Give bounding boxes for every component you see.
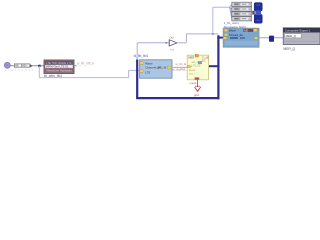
svg-text:Simulation SGN: Simulation SGN xyxy=(224,25,246,29)
svg-text:w_fkt_ME.w: w_fkt_ME.w xyxy=(77,62,95,66)
label E1 below xyxy=(283,47,295,51)
svg-text:Waveform Hardware: Waveform Hardware xyxy=(47,68,73,72)
svg-text:MER_Q: MER_Q xyxy=(286,34,297,38)
wire D1 output to export xyxy=(259,37,283,39)
label D1 two lines xyxy=(224,21,246,29)
block E1 Composite Export xyxy=(283,28,320,45)
wire vertical x213 up xyxy=(212,7,214,34)
svg-text:meas: meas xyxy=(189,81,196,85)
svg-text:w_fkdFM_E: w_fkdFM_E xyxy=(173,67,189,71)
block U2 measurement (yellow) xyxy=(187,54,209,79)
wire bottom horizontal run to riser xyxy=(39,77,128,79)
svg-text:MER_Q: MER_Q xyxy=(283,47,295,51)
svg-text:Out: Out xyxy=(169,35,174,39)
source W1 waveform chain icon xyxy=(14,64,29,67)
thick loop wire right vertical xyxy=(217,35,219,99)
wire top horizontal y34 xyxy=(186,33,218,35)
wire W1 source to block A1 xyxy=(10,65,44,67)
block D1 simulation source DAC (blue) xyxy=(223,28,259,47)
wire left vertical thin upper xyxy=(136,43,138,61)
label U1 xyxy=(134,54,149,58)
arrowhead into A1 xyxy=(44,65,46,67)
label faint under source xyxy=(5,68,34,72)
svg-text:tb_wfm_fkt1: tb_wfm_fkt1 xyxy=(44,74,62,78)
svg-text:LTE: LTE xyxy=(145,71,150,75)
wire top horizontal y7 to fan xyxy=(213,6,230,8)
svg-text:E2: E2 xyxy=(202,59,206,63)
thick loop wire bottom xyxy=(136,97,219,99)
svg-text:t4_fkt_fkt1: t4_fkt_fkt1 xyxy=(134,54,149,58)
label A1 xyxy=(44,74,62,78)
sink stack S1 (4 stacked blocks) xyxy=(232,2,252,21)
svg-text:MER: MER xyxy=(188,55,194,59)
node J1 junction dot xyxy=(38,65,40,67)
node T junction at x213 xyxy=(212,33,214,35)
wire stub A1 output xyxy=(74,65,77,67)
svg-text:0 1 0 1 0 1 0 1 0: 0 1 0 1 0 1 0 1 0 xyxy=(5,68,34,72)
node marker navy square on wire xyxy=(269,36,274,42)
svg-text:w_fkt_E: w_fkt_E xyxy=(176,62,187,66)
wire drop from junction J1 xyxy=(38,66,40,78)
port P1 input circle xyxy=(4,62,10,68)
svg-text:Thread_Ex: Thread_Ex xyxy=(229,33,244,37)
wire into U1 lower input xyxy=(129,69,140,71)
ground symbol GND (red) xyxy=(189,80,200,97)
block U1 subnetwork (blue) xyxy=(140,60,172,78)
thick wire into DAC input xyxy=(217,37,223,39)
svg-text:ME: ME xyxy=(244,29,248,33)
net label w_fkt_ME xyxy=(77,62,95,66)
svg-text:Wave: Wave xyxy=(229,29,237,33)
svg-text:Composite Export 1: Composite Export 1 xyxy=(285,29,311,33)
svg-text:out_t: out_t xyxy=(189,71,195,75)
gate G1 buffer triangle xyxy=(166,35,177,51)
thick loop wire left vertical xyxy=(136,60,138,99)
svg-text:gnd: gnd xyxy=(194,93,199,97)
source output arrowhead xyxy=(30,64,33,67)
svg-text:Inv: Inv xyxy=(170,47,174,51)
wire riser x186 xyxy=(185,34,187,43)
svg-text:LTE_DL: LTE_DL xyxy=(192,63,202,67)
net label on U2 input wire xyxy=(173,62,189,71)
wire triangle input from loop tee xyxy=(137,42,169,44)
svg-text:ME_W: ME_W xyxy=(158,65,167,69)
wire triangle output xyxy=(177,42,186,44)
wire U1 output to U2 input xyxy=(171,66,187,68)
block A1 LTE waveform generator xyxy=(44,60,74,74)
analyzer icon V1 (navy connector) xyxy=(252,3,262,24)
fan wires into sink stack xyxy=(230,4,232,18)
thick stub U2 output to loop xyxy=(209,65,220,67)
wire riser x128 xyxy=(128,70,130,77)
